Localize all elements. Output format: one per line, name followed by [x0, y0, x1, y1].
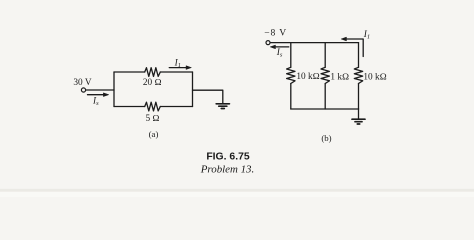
current arrow I1 (circuit b, L-shaped pointing left) — [345, 39, 363, 57]
svg-text:Problem 13.: Problem 13. — [200, 164, 254, 176]
wire: source terminal to node A (left rail of parallel pair) — [86, 89, 114, 91]
wire: right rail vertical (node B) — [192, 72, 194, 107]
wire: top rail of circuit b — [270, 42, 358, 44]
svg-text:5 Ω: 5 Ω — [145, 114, 159, 124]
ground symbol (circuit a) — [216, 103, 229, 105]
svg-text:10 kΩ: 10 kΩ — [363, 72, 386, 82]
resistor R3 10kohm zigzag — [354, 67, 362, 83]
svg-text:(b): (b) — [321, 133, 331, 143]
wire: branch 1 vertical upper lead — [290, 43, 292, 68]
wire: branch 2 vertical lower lead — [324, 84, 326, 110]
wire: bottom branch right lead — [160, 106, 192, 108]
wire: branch 1 vertical lower lead — [290, 84, 292, 110]
wire: bottom rail of circuit b — [291, 108, 359, 110]
svg-text:20 Ω: 20 Ω — [143, 78, 162, 88]
svg-text:(a): (a) — [149, 129, 159, 139]
resistor R 5ohm zigzag — [145, 102, 161, 111]
current arrow Is (circuit a) — [88, 94, 105, 96]
ground symbol (circuit b) — [352, 118, 365, 120]
current arrow Is (circuit b, pointing left) — [274, 46, 289, 48]
wire: branch 3 vertical upper lead — [358, 43, 360, 68]
svg-text:10 kΩ: 10 kΩ — [296, 72, 319, 82]
wire: branch 3 vertical lower lead — [358, 84, 360, 110]
wire: branch 2 vertical upper lead — [324, 43, 326, 68]
wire: bottom rail to ground stub — [358, 109, 360, 119]
wire: node B to ground — [193, 90, 223, 103]
resistor R1 10kohm zigzag — [287, 67, 295, 83]
svg-text:FIG. 6.75: FIG. 6.75 — [206, 151, 250, 162]
wire: top branch right lead — [160, 71, 192, 73]
resistor R 20ohm zigzag — [145, 68, 161, 77]
current arrow I1 (circuit a) — [169, 67, 187, 69]
svg-text:1 kΩ: 1 kΩ — [330, 72, 349, 82]
node: -8 V source terminal — [266, 41, 270, 45]
wire: left rail vertical (node A) — [113, 72, 115, 107]
wire: bottom branch left lead — [114, 106, 145, 108]
resistor R2 1kohm zigzag — [321, 67, 329, 83]
svg-text:−8 V: −8 V — [264, 28, 287, 39]
node: 30 V source terminal — [81, 88, 85, 92]
svg-text:30 V: 30 V — [73, 78, 91, 88]
wire: top branch left lead — [114, 71, 145, 73]
